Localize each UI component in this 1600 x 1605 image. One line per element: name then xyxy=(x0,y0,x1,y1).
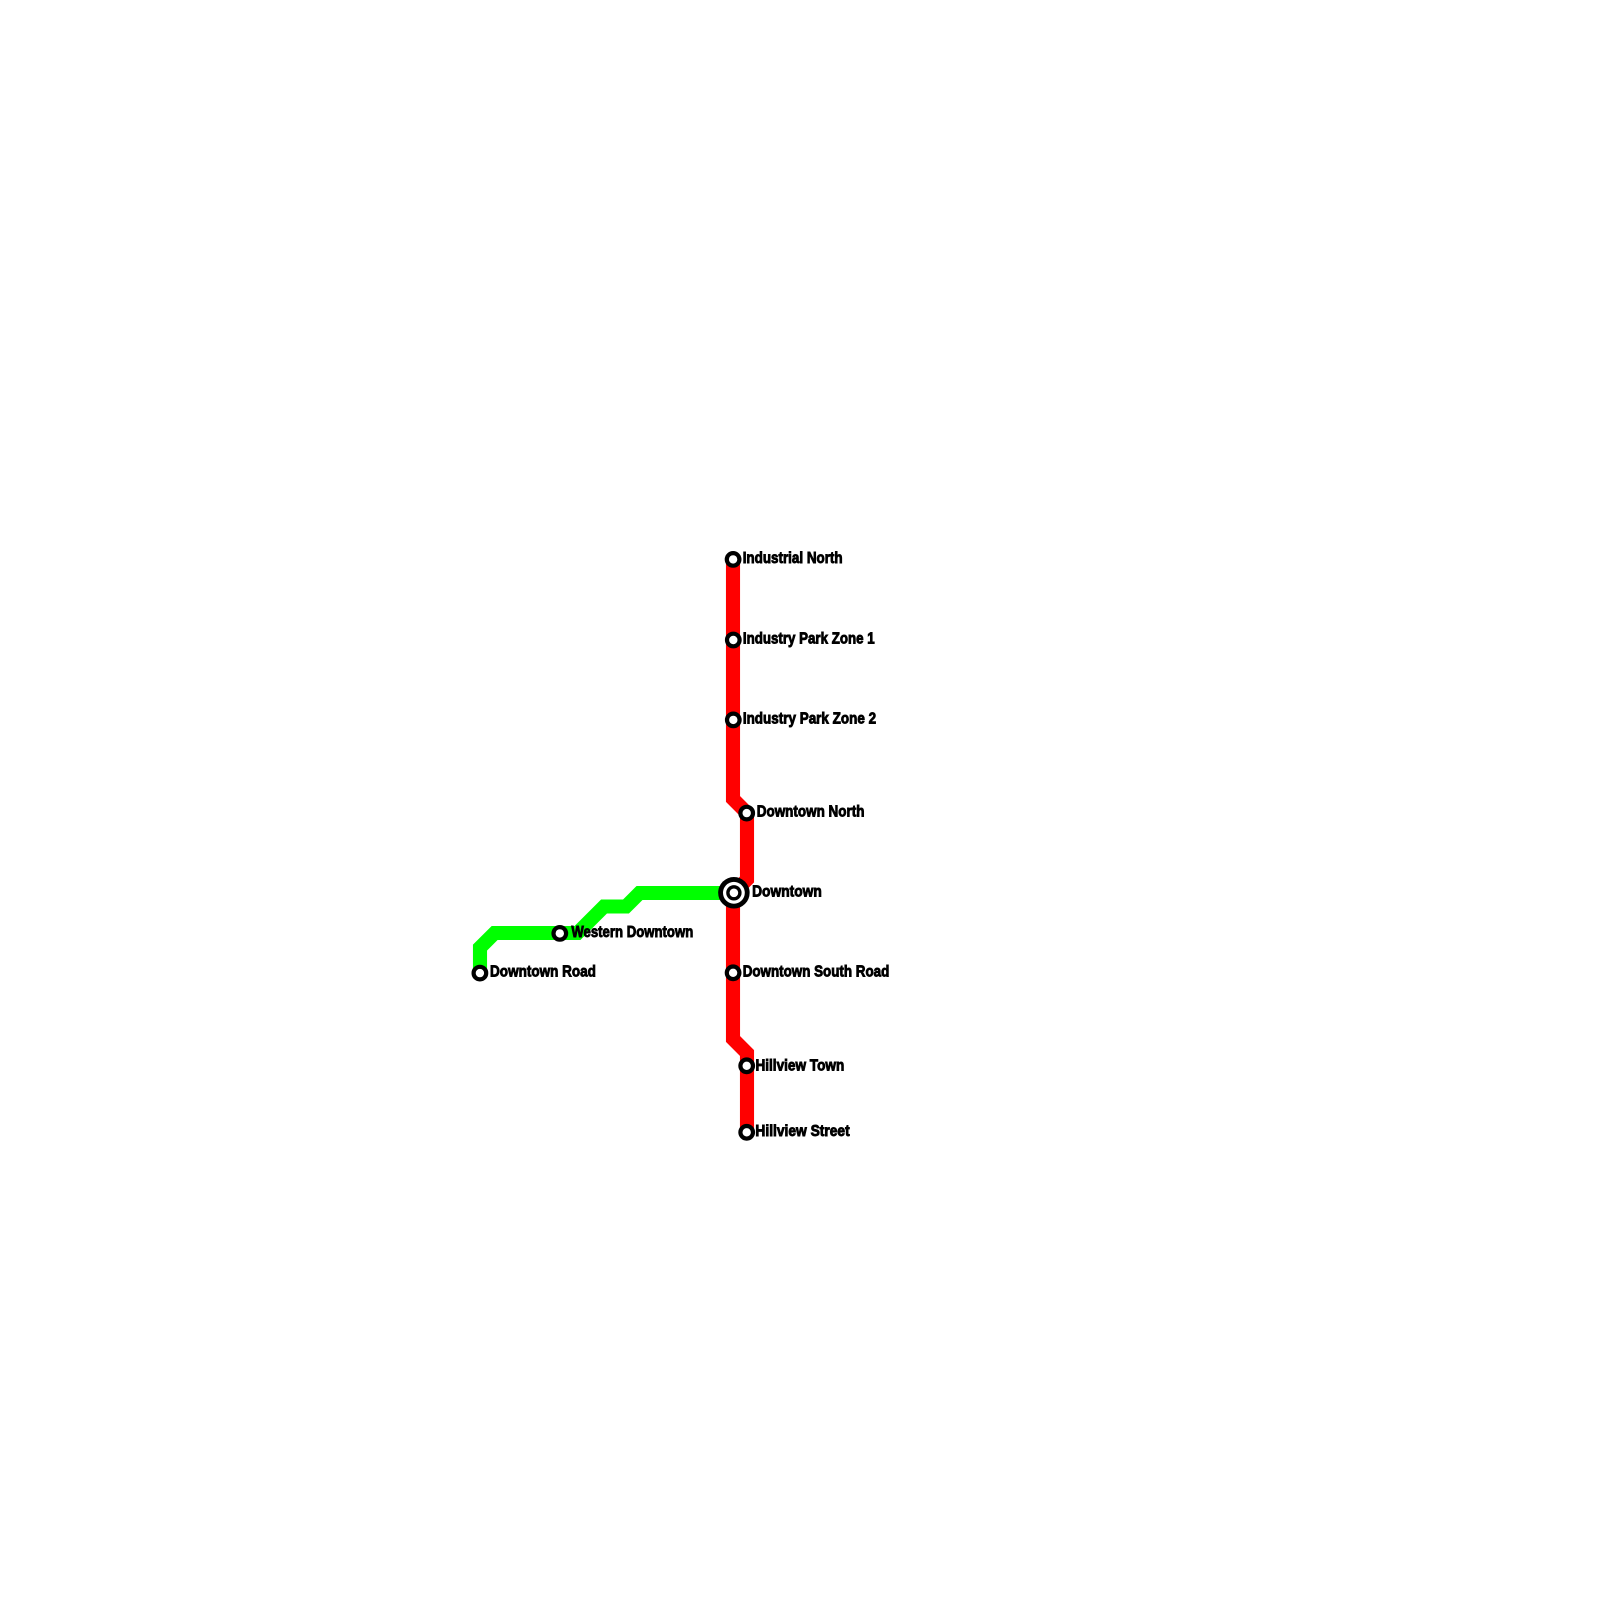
svg-text:Downtown Road: Downtown Road xyxy=(490,964,596,981)
svg-text:Industrial North: Industrial North xyxy=(743,550,843,567)
svg-text:Hillview Street: Hillview Street xyxy=(755,1123,850,1140)
svg-text:Industry Park Zone 1: Industry Park Zone 1 xyxy=(743,631,875,648)
svg-text:Downtown: Downtown xyxy=(752,883,822,900)
svg-text:Downtown South Road: Downtown South Road xyxy=(743,963,890,980)
svg-text:Downtown North: Downtown North xyxy=(757,804,865,821)
svg-text:Industry Park Zone 2: Industry Park Zone 2 xyxy=(743,711,876,728)
svg-text:Western Downtown: Western Downtown xyxy=(571,924,693,941)
svg-text:Hillview Town: Hillview Town xyxy=(755,1058,844,1075)
